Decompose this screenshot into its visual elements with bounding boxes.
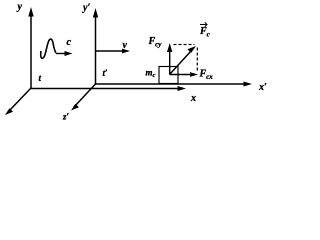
F_c arrowhead: [187, 46, 196, 53]
dashed construction line (vertical right of force rectangle): [196, 48, 198, 73]
z'-axis arrowhead: [71, 104, 79, 111]
svg-text:z′: z′: [62, 112, 70, 122]
y-axis of frame S (vertical line): [30, 12, 32, 88]
mass box (particle m_c): [159, 67, 178, 84]
y'-axis arrowhead: [93, 8, 98, 18]
x-axis arrowhead: [178, 86, 187, 91]
F_cx arrowhead: [190, 72, 198, 77]
z-axis arrowhead: [5, 108, 13, 115]
svg-text:c: c: [67, 37, 72, 48]
photon arrowhead: [65, 51, 73, 56]
svg-text:t′: t′: [103, 68, 109, 78]
force F_cy arrow (shaft): [169, 48, 171, 75]
vector arrow bar over F_c: [200, 22, 207, 26]
svg-text:y′: y′: [82, 3, 90, 14]
photon arrow shaft: [56, 53, 66, 55]
svg-text:x: x: [190, 93, 196, 104]
x'-axis of frame S' (horizontal line): [96, 83, 247, 85]
svg-text:x′: x′: [258, 82, 267, 93]
y'-axis of frame S' (vertical line): [95, 13, 97, 84]
z-axis of frame S (diagonal line): [9, 88, 31, 111]
svg-text:v: v: [123, 40, 128, 51]
svg-text:y: y: [17, 2, 23, 13]
v arrowhead: [122, 49, 130, 54]
force F_c diagonal arrow (shaft): [170, 51, 192, 75]
photon squiggle: [41, 39, 56, 58]
dashed construction line (horizontal top of force rectangle): [174, 44, 195, 46]
force F_cx arrow (shaft): [170, 74, 192, 76]
x-axis of frame S (horizontal line): [31, 88, 180, 90]
x'-axis arrowhead: [244, 82, 253, 87]
frame velocity arrow v (shaft): [96, 50, 124, 52]
z'-axis of frame S' (diagonal line): [74, 84, 96, 107]
F_cy arrowhead: [167, 43, 172, 52]
y-axis arrowhead: [28, 7, 33, 17]
